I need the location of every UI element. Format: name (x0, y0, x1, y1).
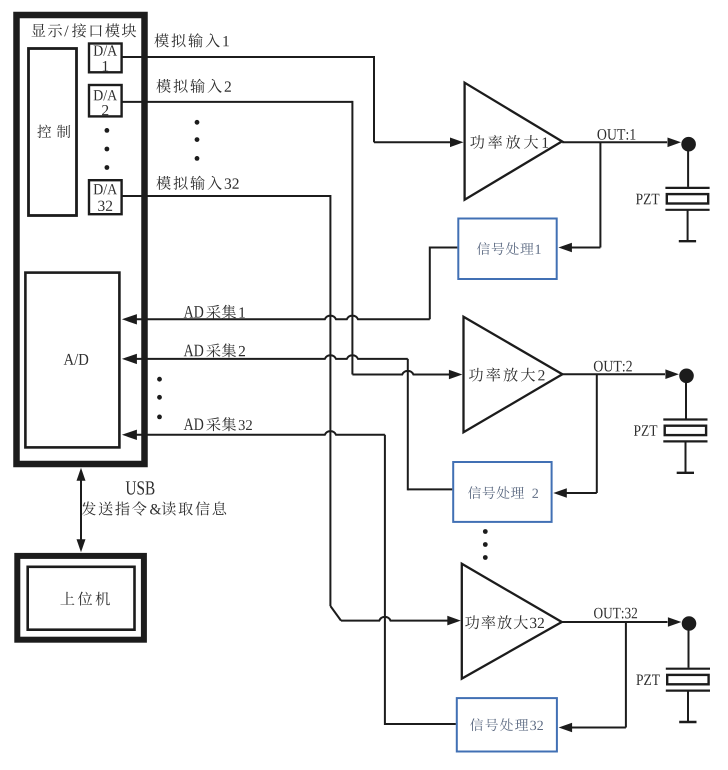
label OUT:1 (597, 129, 635, 140)
power amplifier 2 (triangle) (464, 317, 563, 433)
wire: analog input 1 from DAC1 to amplifier 1 (122, 56, 464, 147)
vertical ellipsis between channel 2 and channel 32 (483, 529, 488, 560)
label 模拟输入1 (154, 33, 228, 47)
wire: node 2 to PZT 2 top plate (685, 382, 687, 419)
amplifier 32 label (465, 615, 544, 629)
control block 控制 (29, 49, 77, 216)
wire: node 1 to PZT 1 top plate (687, 150, 689, 187)
module title label 显示/接口模块 (32, 23, 137, 37)
USB label (126, 481, 155, 494)
host computer label 上位机 (60, 592, 109, 606)
wire: PZT 1 bottom plate to terminal (679, 210, 696, 241)
vertical ellipsis between D/A 2 and D/A 32 (105, 128, 110, 170)
wire: analog input 2 from DAC2 to amplifier 2 (122, 101, 463, 379)
label AD采集32 (184, 417, 252, 431)
PZT 32 label (636, 675, 659, 685)
USB caption 发送指令&读取信息 (82, 501, 227, 515)
control block label 控制 (37, 125, 70, 138)
PZT 2 label (634, 425, 657, 435)
display/interface module box (17, 15, 145, 464)
label 模拟输入32 (156, 176, 238, 190)
amplifier 2 label (469, 368, 545, 382)
wire: OUT:2 from amplifier 2 apex to output node (562, 369, 679, 379)
amplifier 1 label (470, 135, 548, 149)
wire: feedback tap from OUT:32 down to signal processor 32 (559, 622, 626, 732)
vertical ellipsis between AD channel 2 and 32 (157, 377, 162, 419)
wire: feedback tap from OUT:1 down to signal processor 1 (558, 142, 600, 252)
label OUT:2 (594, 361, 632, 372)
label OUT:32 (594, 608, 637, 619)
vertical ellipsis between analog input 2 and 32 (195, 120, 200, 161)
signal processor 32 label (470, 718, 543, 731)
A/D label (64, 354, 89, 365)
DAC block D/A 2 (89, 85, 122, 116)
wire: PZT 32 bottom plate to terminal (679, 691, 696, 722)
output node 32 (junction dot) (682, 616, 697, 631)
signal processor 32 box (457, 698, 557, 751)
PZT transducer 32 (crystal symbol) (666, 669, 710, 691)
label 模拟输入2 (156, 79, 230, 93)
wire: AD channel 32 from signal processor 32 to A/D input (122, 430, 456, 725)
DAC block D/A 1 (89, 44, 122, 73)
A/D converter block (25, 273, 119, 448)
wire: feedback tap from OUT:2 down to signal processor 2 (553, 374, 597, 498)
wire: analog input 32 from DAC32 to amplifier 32 (122, 195, 461, 625)
wire: OUT:32 from amplifier 32 apex to output node (562, 617, 681, 627)
wire: AD channel 1 from signal processor 1 to A/D input (122, 247, 457, 325)
DAC block D/A 32 (89, 180, 122, 214)
PZT transducer 1 (crystal symbol) (665, 188, 709, 210)
output node 2 (junction dot) (679, 369, 694, 384)
PZT 1 label (636, 194, 659, 204)
PZT transducer 2 (crystal symbol) (663, 420, 707, 442)
host computer box 上位机 (inner screen) (28, 567, 135, 630)
label AD采集2 (184, 343, 245, 357)
label AD采集1 (184, 305, 245, 319)
USB link double arrow (77, 468, 86, 552)
wire: node 32 to PZT 32 top plate (688, 630, 690, 668)
power amplifier 1 (triangle) (465, 83, 562, 200)
wire: OUT:1 from amplifier 1 apex to output node (562, 138, 681, 148)
power amplifier 32 (triangle) (462, 564, 562, 679)
signal processor 2 box (453, 462, 551, 522)
wire: PZT 2 bottom plate to terminal (677, 442, 694, 473)
signal processor 1 label (477, 242, 541, 255)
signal processor 1 box (458, 219, 556, 280)
output node 1 (junction dot) (681, 137, 696, 152)
signal processor 2 label (468, 486, 538, 499)
host computer box 上位机 (outer) (17, 556, 144, 640)
wire: AD channel 2 from signal processor 2 to A/D input (122, 354, 452, 491)
